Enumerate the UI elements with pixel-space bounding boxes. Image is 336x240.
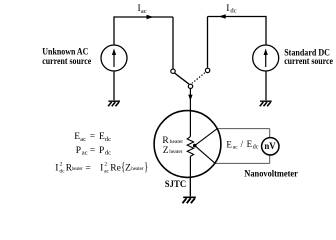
svg-text:nV: nV	[264, 141, 275, 152]
svg-text:I: I	[226, 4, 229, 14]
svg-text:=: =	[85, 164, 90, 174]
svg-text:heater: heater	[72, 166, 83, 172]
svg-text:I: I	[100, 164, 103, 174]
svg-text:=: =	[90, 146, 95, 156]
svg-text:heater: heater	[169, 149, 183, 155]
svg-text:dc: dc	[59, 169, 65, 175]
svg-text:E: E	[247, 139, 253, 149]
svg-text:ac: ac	[82, 149, 88, 156]
svg-text:P: P	[76, 146, 81, 156]
svg-text:Z: Z	[163, 146, 169, 156]
svg-text:heater: heater	[131, 166, 143, 172]
svg-text:=: =	[90, 132, 95, 142]
svg-text:ac: ac	[104, 169, 109, 175]
svg-text:ac: ac	[80, 136, 86, 143]
svg-text:P: P	[99, 146, 104, 156]
svg-text:Re: Re	[110, 164, 121, 174]
svg-text:dc: dc	[230, 8, 236, 15]
svg-text:Nanovoltmeter: Nanovoltmeter	[244, 170, 298, 180]
svg-text:ac: ac	[233, 145, 238, 151]
svg-text:R: R	[162, 136, 169, 146]
svg-text:2: 2	[60, 161, 63, 167]
svg-text:dc: dc	[105, 136, 111, 143]
svg-text:SJTC: SJTC	[165, 180, 186, 190]
svg-text:2: 2	[104, 161, 107, 167]
svg-text:dc: dc	[105, 149, 111, 156]
svg-text:current source: current source	[284, 57, 333, 67]
svg-text:I: I	[55, 164, 58, 174]
svg-text:heater: heater	[170, 139, 184, 145]
svg-text:dc: dc	[253, 145, 259, 151]
svg-text:}: }	[144, 159, 148, 174]
svg-text:ac: ac	[141, 8, 147, 15]
svg-text:E: E	[226, 139, 232, 149]
svg-text:Z: Z	[125, 164, 131, 174]
svg-text:current source: current source	[42, 57, 91, 67]
svg-text:Unknown AC: Unknown AC	[42, 47, 88, 57]
